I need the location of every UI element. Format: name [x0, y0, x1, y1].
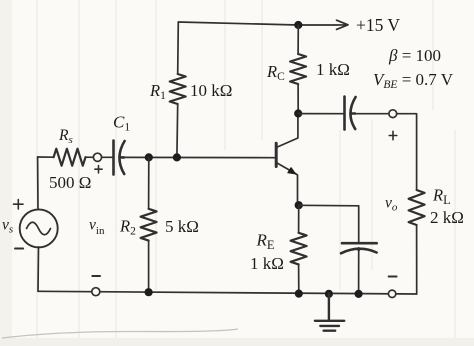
capacitor CE (emitter bypass) — [341, 243, 377, 253]
transistor Q1 — [276, 114, 298, 206]
wire: C1 to base (with R2 and R1 taps) — [124, 156, 276, 158]
capacitor C1 — [114, 141, 125, 175]
source vs (sinusoidal) — [20, 209, 58, 247]
node: CE bottom junction — [355, 290, 363, 298]
svg-text:β = 100: β = 100 — [388, 46, 441, 65]
wire: CE bottom to bus — [358, 250, 360, 294]
wire: R1 bottom to base node — [176, 104, 179, 157]
resistor R1 — [170, 74, 186, 104]
wire: Rs to input terminal — [38, 156, 94, 158]
svg-text:500 Ω: 500 Ω — [49, 173, 91, 192]
svg-text:+15 V: +15 V — [356, 15, 400, 35]
resistor RC — [290, 54, 306, 84]
wire: RE bottom to bus — [298, 264, 300, 293]
wire: output terminal to RL top — [397, 114, 417, 190]
node: collector junction — [294, 109, 302, 117]
wire: rail down to R1 — [177, 22, 180, 74]
label - (vin bottom) — [92, 275, 100, 277]
wire: emitter node to RE — [298, 205, 300, 233]
wire: collector node to C2 — [298, 113, 344, 115]
node: R1 bottom junction — [173, 153, 181, 161]
wire: RC bottom to collector node — [297, 84, 299, 114]
terminal: vin + (open circle) — [93, 153, 101, 161]
terminal: vin - (open circle) — [92, 288, 100, 296]
wire: RL bottom to ground bus — [416, 225, 418, 294]
resistor RL — [409, 190, 425, 225]
node: ground junction — [325, 290, 333, 298]
svg-text:10 kΩ: 10 kΩ — [190, 81, 232, 100]
resistor Rs — [54, 149, 86, 166]
svg-text:5 kΩ: 5 kΩ — [165, 217, 199, 236]
wire: R2 bottom lead — [148, 241, 150, 293]
terminal: vo - (open circle) — [388, 290, 395, 297]
wire: R2 top lead — [148, 157, 150, 208]
label - (vo bottom) — [389, 276, 397, 278]
node: R2 top junction — [145, 153, 153, 161]
capacitor C2 (output coupling) — [345, 97, 356, 130]
svg-text:2 kΩ: 2 kΩ — [430, 208, 464, 227]
wire: terminal to C1 — [102, 156, 114, 158]
wire: C2 to output terminal — [355, 113, 389, 115]
label - (source) — [15, 248, 23, 250]
wire: +15V supply rail (top) — [178, 22, 298, 25]
label + (input top) — [95, 166, 102, 173]
ground — [315, 294, 344, 331]
svg-text:1 kΩ: 1 kΩ — [250, 254, 284, 273]
resistor RE — [291, 233, 307, 265]
wire: source top to Rs — [37, 157, 39, 210]
wire: rail to RC — [297, 25, 299, 54]
wire: emitter node to CE top — [299, 205, 359, 243]
wire: supply arrow to +15 V — [298, 20, 348, 29]
node: emitter junction — [295, 201, 303, 209]
resistor R2 — [141, 209, 157, 241]
label + (source) — [14, 200, 24, 210]
svg-text:1 kΩ: 1 kΩ — [316, 60, 350, 79]
wire: ground bus (bottom) — [38, 291, 417, 294]
node: rail/RC junction — [294, 21, 302, 29]
node: R2 bottom junction — [145, 288, 153, 296]
node: RE bottom junction — [295, 290, 303, 298]
label + (output) — [389, 131, 397, 139]
terminal: vo + (open circle) — [389, 110, 397, 118]
wire: source bottom to bus — [37, 247, 40, 291]
